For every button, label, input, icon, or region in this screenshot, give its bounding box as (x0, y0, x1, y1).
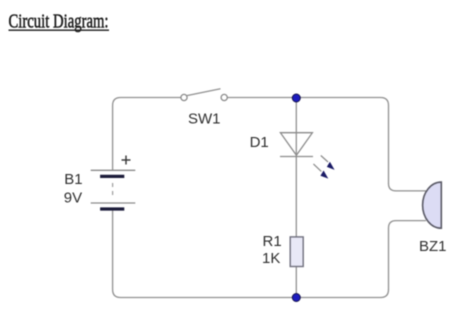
svg-text:BZ1: BZ1 (419, 238, 447, 255)
svg-text:B1: B1 (64, 171, 82, 188)
battery B1 negative plate (top cell) (100, 175, 124, 178)
svg-text:Circuit Diagram:: Circuit Diagram: (9, 11, 109, 33)
resistor R1 (1K) body (290, 237, 303, 267)
wire: buzzer top lead (389, 184, 426, 191)
node: bottom junction (292, 294, 300, 302)
wire: bottom wire and bottom-left corner up to battery (113, 211, 389, 298)
svg-text:SW1: SW1 (188, 110, 221, 127)
wire: top-left corner and top wire left segment to switch (113, 98, 181, 171)
wire: middle branch vertical (295, 98, 297, 298)
wire: buzzer bottom lead (389, 221, 426, 290)
battery plus sign (122, 156, 131, 165)
switch SW1 (181, 89, 227, 101)
node: top junction (292, 94, 300, 102)
LED D1 (280, 133, 335, 179)
LED arrow 2 (313, 164, 328, 179)
svg-text:R1: R1 (263, 233, 282, 250)
svg-text:1K: 1K (262, 250, 280, 267)
switch SW1 right contact (221, 94, 227, 100)
buzzer BZ1 (423, 182, 442, 228)
switch SW1 left contact (181, 94, 187, 100)
battery B1 positive plate (bottom cell) (91, 202, 136, 204)
title underline (9, 29, 110, 31)
LED D1 cathode bar (280, 156, 313, 158)
svg-text:9V: 9V (64, 190, 82, 207)
battery B1 negative plate (bottom cell) (100, 207, 124, 210)
switch SW1 lever (187, 89, 221, 96)
battery B1 positive plate (top cell) (91, 169, 136, 171)
LED D1 anode triangle (280, 133, 312, 156)
svg-text:D1: D1 (250, 134, 269, 151)
battery B1 dashed cell link (112, 183, 114, 199)
wire: top wire from switch to top-right corner, down to buzzer top lead (227, 98, 389, 184)
LED arrow 1 (321, 156, 335, 170)
battery B1 (91, 156, 136, 210)
